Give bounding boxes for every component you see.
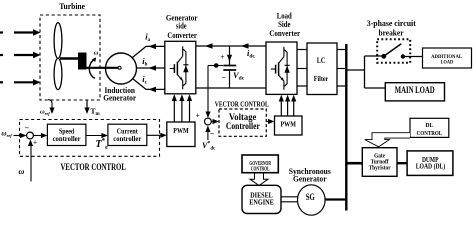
svg-text:CONTROL: CONTROL [251, 167, 270, 173]
turbine blade upper [54, 23, 62, 59]
svg-text:+: + [221, 53, 225, 61]
wire speed to current controller [86, 135, 105, 137]
wire summing to voltage controller [211, 121, 216, 123]
DL CONTROL box [410, 118, 449, 137]
MAIN LOAD box [385, 83, 444, 101]
wire to main load [365, 87, 386, 89]
turbine blade lower [54, 58, 62, 89]
Speed controller box [47, 124, 86, 145]
svg-text:LC: LC [317, 56, 325, 65]
high-speed shaft [60, 57, 79, 60]
svg-text:Generator: Generator [103, 94, 136, 103]
svg-text:Thyristor: Thyristor [369, 166, 391, 172]
voltage controller dashed box [219, 109, 266, 136]
wire current controller to PWM1 [147, 134, 164, 136]
svg-text:DL: DL [425, 123, 433, 129]
shaft hub [118, 66, 121, 69]
svg-text:−: − [222, 73, 227, 82]
capacitor C (dc link) [229, 46, 231, 65]
breaker pole contact left [381, 54, 386, 59]
load side converter box [266, 42, 297, 94]
DIESEL ENGINE box [242, 185, 281, 213]
omega feedback wire [30, 143, 32, 182]
Vdc reference arrow [207, 129, 209, 141]
svg-text:Converter: Converter [269, 29, 300, 38]
wire ia [133, 46, 166, 57]
Vdc sense wire [207, 66, 209, 116]
svg-text:Turbine: Turbine [59, 1, 85, 11]
rotation arc arrow [89, 60, 95, 79]
GOVERNOR CONTROL box [242, 155, 278, 173]
wires LC filter to bus [337, 50, 345, 87]
synchronous generator SG circle [298, 185, 326, 215]
svg-text:PWM: PWM [280, 120, 296, 129]
svg-text:LOAD (DL): LOAD (DL) [416, 163, 446, 171]
svg-text:Side: Side [278, 20, 291, 29]
dc bus bottom rail [196, 87, 266, 89]
svg-text:VECTOR CONTROL: VECTOR CONTROL [60, 162, 126, 172]
svg-text:LOAD: LOAD [441, 60, 454, 66]
svg-text:ω: ω [19, 167, 25, 176]
IGBT symbol U2 [271, 47, 290, 90]
wind arrow 2 [0, 54, 34, 56]
wire ib [137, 67, 166, 69]
breaker dotted box [377, 39, 410, 63]
breaker pole contact right [401, 54, 405, 58]
svg-text:Converter: Converter [167, 31, 197, 40]
svg-text:controller: controller [53, 135, 81, 143]
svg-text:+: + [196, 112, 200, 120]
PWM box 2 [275, 116, 303, 135]
AC bus bar [345, 44, 347, 211]
gearbox block [78, 53, 87, 70]
wire summing to speed controller [33, 135, 44, 137]
ADDITIONAL LOAD box [423, 48, 472, 68]
svg-text:PWM: PWM [173, 126, 189, 135]
Gate Turnoff Thyristor box [362, 148, 397, 177]
summing junction (speed loop) [27, 132, 34, 139]
hollow arrow governor to diesel engine [250, 173, 268, 186]
wires converter2 to LC filter [297, 50, 307, 87]
IGBT symbol U1 [170, 46, 189, 89]
svg-text:−: − [210, 129, 215, 138]
induction generator circle [106, 53, 137, 84]
svg-text:SG: SG [306, 192, 315, 202]
wire omega ref to summing [14, 135, 24, 137]
hollow elbow arrow DL control to thyristor [365, 133, 410, 147]
gate wires into converter 2 [281, 98, 293, 117]
svg-text:MAIN LOAD: MAIN LOAD [395, 85, 435, 95]
svg-text:+: + [33, 139, 37, 147]
shaft coupling [281, 196, 298, 198]
summing junction (voltage loop) [205, 118, 212, 125]
svg-text:ω: ω [94, 50, 99, 57]
wire SG to bus [325, 198, 346, 200]
wire bus to gate turnoff thyristor [347, 162, 362, 165]
svg-text:side: side [176, 22, 187, 31]
dc bus top rail [196, 45, 266, 47]
svg-text:Generator: Generator [293, 175, 327, 184]
turbine dashed enclosure [40, 15, 100, 100]
wind arrow 3 [0, 81, 34, 83]
svg-text:CONTROL: CONTROL [417, 130, 443, 137]
PWM box 1 [167, 122, 195, 147]
svg-text:Controller: Controller [226, 121, 260, 131]
Vdc sense tap junction [208, 65, 223, 67]
Tm arrow from turbine [86, 100, 88, 112]
gate wires into converter 1 [174, 97, 189, 122]
wire breaker to additional load [403, 56, 423, 58]
svg-text:ENGINE: ENGINE [249, 198, 274, 207]
branch riser wire [364, 56, 366, 88]
DUMP LOAD box [407, 151, 453, 176]
low-speed shaft [86, 67, 119, 69]
vector control dashed box [20, 120, 160, 157]
wire voltage controller to PWM2 [266, 121, 271, 123]
wire thyristor to dump load [397, 162, 407, 164]
generator side converter box [165, 41, 196, 94]
Current controller box [108, 124, 147, 145]
svg-text:Filter: Filter [314, 74, 329, 83]
wire to breaker [365, 55, 383, 57]
svg-text:VECTOR CONTROL: VECTOR CONTROL [215, 100, 269, 108]
svg-text:−: − [25, 124, 30, 133]
LC filter box [307, 43, 337, 95]
svg-text:controller: controller [113, 135, 141, 143]
omega ref tap arrow from turbine [48, 100, 52, 111]
wind arrow 1 [0, 31, 34, 33]
wire ic [133, 79, 166, 90]
svg-text:breaker: breaker [379, 28, 404, 38]
wire bus to load branch [347, 69, 365, 71]
breaker blade [384, 44, 401, 56]
